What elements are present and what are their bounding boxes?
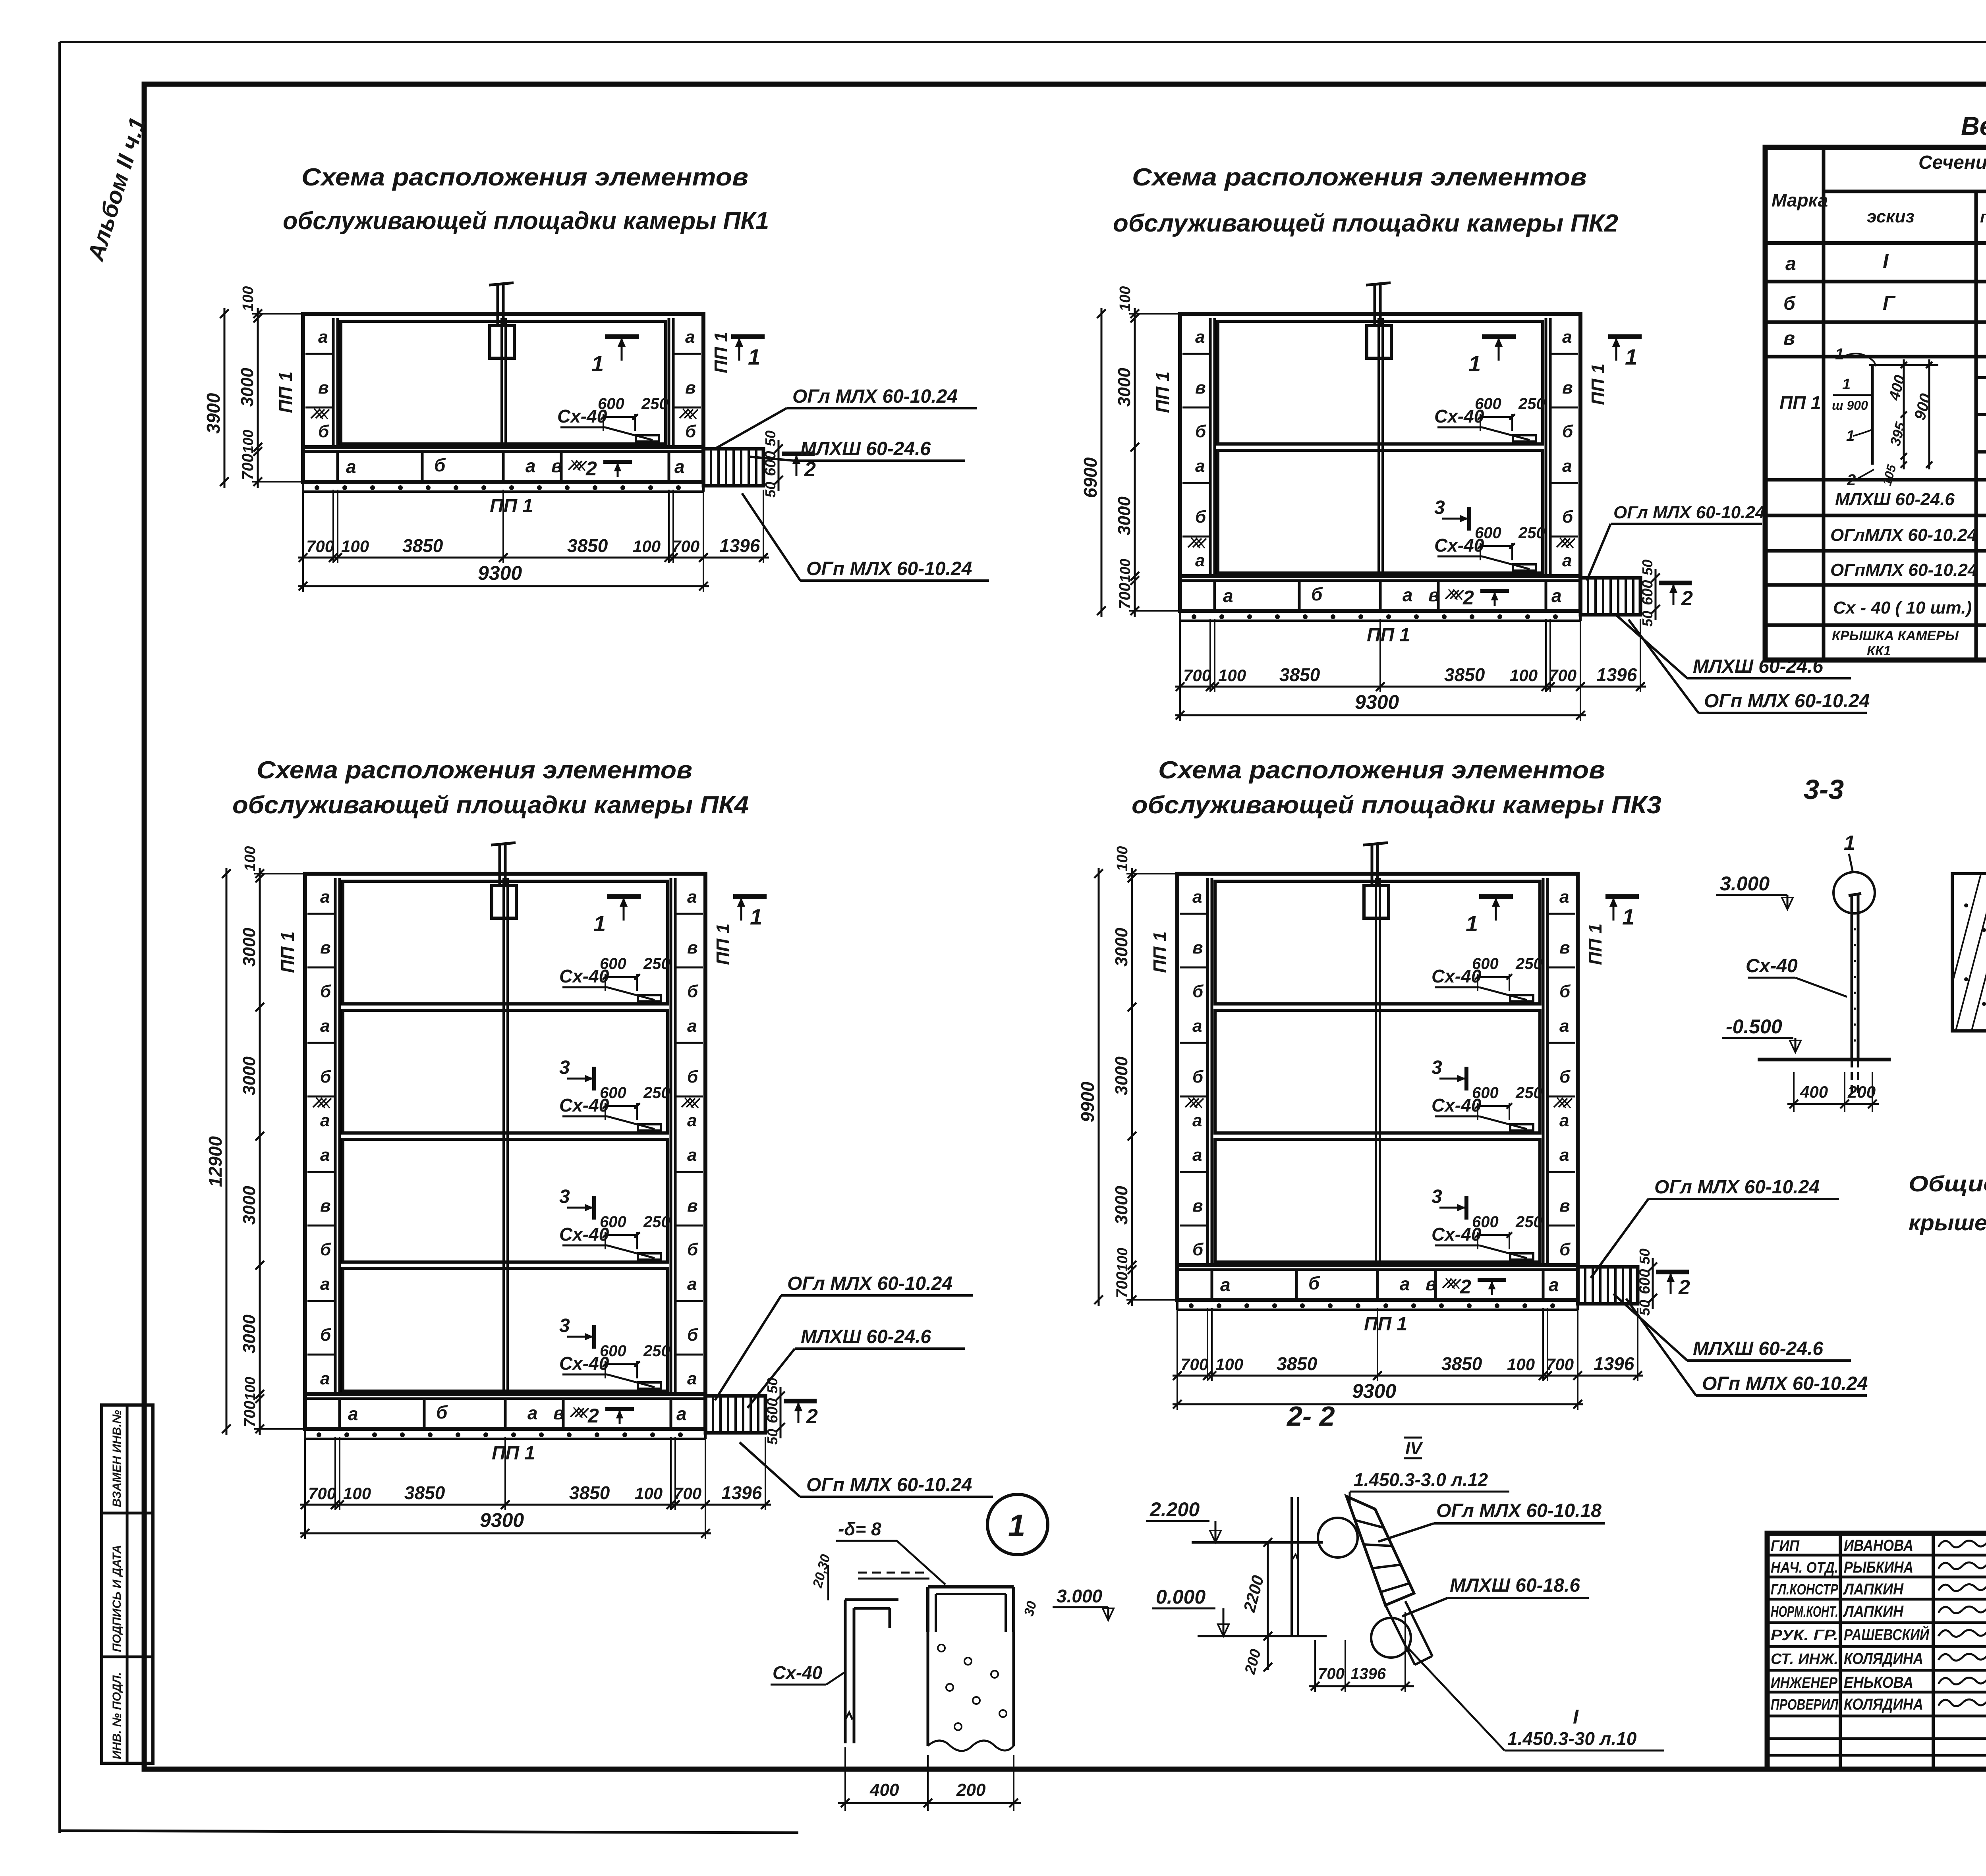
plan PK3 left dimension chain bbox=[1131, 868, 1133, 1306]
svg-text:9300: 9300 bbox=[480, 1509, 524, 1531]
svg-text:б: б bbox=[320, 1240, 332, 1259]
svg-text:ВЗАМЕН ИНВ.№: ВЗАМЕН ИНВ.№ bbox=[110, 1410, 124, 1507]
svg-text:100: 100 bbox=[1114, 846, 1131, 871]
svg-text:100: 100 bbox=[240, 286, 257, 311]
svg-text:ОГл МЛХ 60-10.24: ОГл МЛХ 60-10.24 bbox=[787, 1273, 952, 1294]
svg-text:50: 50 bbox=[1639, 611, 1656, 627]
svg-text:в: в bbox=[1783, 328, 1795, 349]
svg-text:250: 250 bbox=[1518, 395, 1545, 413]
plan PK1 section mark 2 outside ladder bbox=[782, 452, 815, 456]
svg-text:1: 1 bbox=[748, 344, 760, 369]
svg-text:а: а bbox=[1400, 1274, 1410, 1294]
plan PK4 section mark 1 inside bbox=[607, 894, 641, 899]
svg-text:КК1: КК1 bbox=[1867, 643, 1891, 658]
plan PK1 section mark 1 outside bbox=[731, 334, 765, 339]
svg-text:КРЫШКА КАМЕРЫ: КРЫШКА КАМЕРЫ bbox=[1832, 628, 1959, 643]
svg-text:а: а bbox=[687, 1111, 697, 1130]
plan PK3 ladder width dim 50-600-50 bbox=[1652, 1258, 1654, 1309]
svg-text:700: 700 bbox=[308, 1484, 336, 1503]
svg-text:а: а bbox=[674, 456, 685, 477]
svg-text:3000: 3000 bbox=[1112, 928, 1131, 967]
svg-text:3850: 3850 bbox=[1277, 1353, 1318, 1374]
svg-text:б: б bbox=[320, 982, 332, 1001]
svg-text:2: 2 bbox=[1460, 1276, 1471, 1298]
svg-text:НАЧ. ОТД.: НАЧ. ОТД. bbox=[1771, 1559, 1838, 1576]
svg-text:а: а bbox=[1559, 1111, 1569, 1130]
plan PK4 section mark 1 outside bbox=[733, 894, 767, 899]
plan PK2 storey room panels bbox=[1218, 321, 1543, 444]
svg-text:б: б bbox=[1562, 422, 1574, 441]
svg-text:3000: 3000 bbox=[240, 1314, 259, 1353]
svg-text:а: а bbox=[527, 1403, 538, 1423]
plan PK2 bottom dimension chain bbox=[1179, 619, 1181, 692]
svg-text:1: 1 bbox=[1466, 911, 1478, 936]
svg-text:3850: 3850 bbox=[404, 1482, 445, 1503]
svg-text:а: а bbox=[1403, 585, 1413, 605]
svg-text:МЛХШ 60-24.6: МЛХШ 60-24.6 bbox=[1835, 490, 1955, 509]
section 3-3 detail circle 1 bbox=[1833, 872, 1875, 913]
svg-text:ОГп МЛХ 60-10.24: ОГп МЛХ 60-10.24 bbox=[1702, 1373, 1868, 1394]
svg-text:2: 2 bbox=[1462, 587, 1474, 609]
svg-text:700: 700 bbox=[1546, 1355, 1574, 1374]
svg-text:а: а bbox=[320, 1145, 330, 1165]
svg-text:ПРОВЕРИЛ: ПРОВЕРИЛ bbox=[1771, 1697, 1839, 1713]
svg-text:700: 700 bbox=[672, 537, 699, 556]
svg-text:в: в bbox=[1428, 585, 1439, 605]
svg-text:12900: 12900 bbox=[205, 1136, 226, 1187]
svg-text:б: б bbox=[1311, 584, 1323, 604]
svg-text:обслуживающей площадки камер: обслуживающей площадки камеры ПК1 bbox=[283, 207, 769, 235]
svg-text:ИНВ. № ПОДЛ.: ИНВ. № ПОДЛ. bbox=[110, 1672, 124, 1759]
section 3-3 ground line bbox=[1758, 1058, 1891, 1062]
plan PK4 anchor dots bbox=[304, 1429, 306, 1439]
svg-text:600: 600 bbox=[1472, 955, 1499, 973]
svg-text:ПП 1: ПП 1 bbox=[1779, 392, 1821, 413]
svg-text:600: 600 bbox=[1472, 1084, 1499, 1102]
outer sheet border bbox=[60, 41, 1986, 43]
svg-text:а: а bbox=[1195, 456, 1205, 476]
plan PK4 ladder bbox=[705, 1396, 765, 1433]
svg-text:ОГп МЛХ 60-10.24: ОГп МЛХ 60-10.24 bbox=[1704, 691, 1870, 712]
svg-text:КОЛЯДИНА: КОЛЯДИНА bbox=[1844, 1696, 1923, 1713]
svg-text:СТ. ИНЖ.: СТ. ИНЖ. bbox=[1771, 1651, 1838, 1668]
svg-text:Схема расположения элементов: Схема расположения элементов bbox=[1132, 164, 1587, 191]
svg-text:3850: 3850 bbox=[1279, 664, 1320, 685]
svg-text:ГИП: ГИП bbox=[1771, 1538, 1800, 1554]
svg-text:1: 1 bbox=[1842, 376, 1851, 393]
svg-text:НОРМ.КОНТ.: НОРМ.КОНТ. bbox=[1771, 1604, 1838, 1620]
svg-text:ОГлМЛХ 60-10.24: ОГлМЛХ 60-10.24 bbox=[1830, 525, 1977, 545]
svg-text:а: а bbox=[685, 327, 695, 347]
svg-text:ПП 1: ПП 1 bbox=[1588, 363, 1608, 405]
plan PK3 band section mark 2 bbox=[1478, 1278, 1506, 1282]
svg-text:250: 250 bbox=[1518, 524, 1545, 542]
plan PK2 section mark 3 storey 2 bbox=[1467, 507, 1471, 531]
svg-text:600: 600 bbox=[1475, 395, 1501, 413]
svg-text:а: а bbox=[1195, 327, 1205, 347]
plan PK3 overall height dim bbox=[1098, 868, 1100, 1306]
svg-text:1: 1 bbox=[1625, 344, 1637, 369]
svg-text:а: а bbox=[1559, 1016, 1569, 1036]
svg-text:МЛХШ 60-18.6: МЛХШ 60-18.6 bbox=[1450, 1575, 1580, 1596]
svg-text:400: 400 bbox=[869, 1780, 899, 1800]
svg-text:ПП 1: ПП 1 bbox=[1364, 1314, 1407, 1335]
title block signature grid bbox=[1767, 1554, 1986, 1557]
svg-text:2: 2 bbox=[585, 457, 597, 480]
section 2-2 joint circles bbox=[1318, 1518, 1358, 1558]
svg-text:обслуживающей площадки камер: обслуживающей площадки камеры ПК3 bbox=[1132, 791, 1661, 819]
svg-text:600: 600 bbox=[600, 1084, 626, 1102]
svg-text:обслуживающей площадки камер: обслуживающей площадки камеры ПК2 bbox=[1113, 210, 1618, 237]
plan PK3 section mark 2 outside ladder bbox=[1656, 1270, 1689, 1274]
svg-text:100: 100 bbox=[1114, 1248, 1130, 1272]
svg-text:крышек камер см. на листе: крышек камер см. на листе 3. bbox=[1909, 1210, 1986, 1235]
plan PK4 section mark 3 storey 2 bbox=[592, 1067, 596, 1090]
svg-text:а: а bbox=[1192, 1111, 1202, 1130]
svg-text:1396: 1396 bbox=[1594, 1353, 1634, 1374]
svg-text:МЛХШ 60-24.6: МЛХШ 60-24.6 bbox=[800, 438, 931, 459]
svg-text:2: 2 bbox=[806, 1405, 818, 1428]
plan PK3 section mark 1 outside bbox=[1605, 894, 1639, 899]
svg-text:100: 100 bbox=[341, 537, 369, 556]
svg-text:ЛАПКИН: ЛАПКИН bbox=[1843, 1603, 1904, 1620]
svg-text:100: 100 bbox=[635, 1484, 663, 1503]
svg-text:250: 250 bbox=[1515, 1084, 1542, 1102]
svg-text:б: б bbox=[1559, 1067, 1571, 1087]
svg-text:3000: 3000 bbox=[1112, 1186, 1131, 1225]
plan PK4 bottom band bbox=[305, 1394, 705, 1429]
svg-text:3.000: 3.000 bbox=[1720, 872, 1770, 895]
section 2-2 dim 200 bbox=[1267, 1636, 1269, 1670]
section 3-3 post bbox=[1851, 896, 1853, 1060]
svg-text:600: 600 bbox=[600, 1213, 626, 1231]
svg-text:3000: 3000 bbox=[238, 368, 257, 407]
svg-text:ш 900: ш 900 bbox=[1832, 398, 1868, 413]
svg-text:Г: Г bbox=[1883, 292, 1896, 314]
svg-text:ОГп МЛХ 60-10.24: ОГп МЛХ 60-10.24 bbox=[806, 1475, 972, 1496]
svg-text:в: в bbox=[553, 1403, 564, 1423]
svg-text:I: I bbox=[1573, 1706, 1579, 1728]
plan PK2 section mark 1 inside bbox=[1482, 334, 1516, 339]
svg-text:ОГл МЛХ 60-10.18: ОГл МЛХ 60-10.18 bbox=[1436, 1500, 1602, 1521]
section 2-2 ladder tail bbox=[1385, 1605, 1415, 1665]
plan PK2 band section mark 2 bbox=[1480, 589, 1509, 593]
svg-text:Схема расположения элементов: Схема расположения элементов bbox=[301, 164, 748, 191]
plan PK1 band section mark 2 bbox=[603, 460, 632, 464]
svg-text:б: б bbox=[1192, 982, 1204, 1001]
svg-text:в: в bbox=[1192, 938, 1203, 957]
svg-text:100: 100 bbox=[1215, 1355, 1243, 1374]
plan PK3 bottom band bbox=[1177, 1265, 1578, 1300]
svg-text:3850: 3850 bbox=[569, 1482, 610, 1503]
svg-text:3: 3 bbox=[559, 1057, 570, 1078]
svg-text:в: в bbox=[1559, 1196, 1570, 1216]
plan PK3 outer walls bbox=[1177, 874, 1578, 1265]
plan PK3 storey room panels bbox=[1215, 881, 1540, 1004]
svg-text:1: 1 bbox=[1835, 345, 1844, 363]
svg-text:в: в bbox=[1426, 1274, 1437, 1294]
svg-text:а: а bbox=[348, 1403, 358, 1424]
plan PK4 bottom dimension chain bbox=[304, 1437, 306, 1510]
plan PK4 section mark 3 storey 4 bbox=[592, 1325, 596, 1349]
plan PK3 anchor dots bbox=[1176, 1300, 1178, 1310]
svg-text:в: в bbox=[551, 455, 562, 476]
svg-text:3000: 3000 bbox=[240, 1186, 259, 1225]
plan PK1 overall width dim bbox=[298, 585, 709, 587]
svg-text:Общие указания и схему рас: Общие указания и схему расположения bbox=[1909, 1171, 1986, 1196]
section 3-3 dims 400 200 bbox=[1793, 1072, 1795, 1112]
svg-text:в: в bbox=[1559, 938, 1570, 957]
svg-text:ОГл МЛХ 60-10.24: ОГл МЛХ 60-10.24 bbox=[792, 386, 958, 407]
svg-text:3: 3 bbox=[1432, 1186, 1442, 1207]
plan PK1 bottom band bbox=[303, 447, 703, 482]
svg-text:100: 100 bbox=[240, 430, 256, 454]
svg-text:а: а bbox=[320, 887, 330, 907]
svg-text:а: а bbox=[1562, 327, 1572, 347]
svg-text:б: б bbox=[1559, 982, 1571, 1001]
svg-text:100: 100 bbox=[242, 846, 259, 871]
svg-text:в: в bbox=[1192, 1196, 1203, 1216]
svg-text:3850: 3850 bbox=[402, 535, 443, 556]
svg-text:3: 3 bbox=[1432, 1057, 1442, 1078]
svg-text:2- 2: 2- 2 bbox=[1286, 1401, 1335, 1432]
svg-text:0.000: 0.000 bbox=[1156, 1586, 1206, 1608]
svg-text:РУК. ГР.: РУК. ГР. bbox=[1771, 1627, 1838, 1644]
svg-text:200: 200 bbox=[956, 1780, 986, 1800]
plan PK4 ladder width dim 50-600-50 bbox=[780, 1387, 782, 1438]
svg-text:6900: 6900 bbox=[1080, 457, 1101, 498]
svg-text:9300: 9300 bbox=[1352, 1380, 1396, 1402]
svg-text:б: б bbox=[1559, 1240, 1571, 1259]
plan PK2 bottom band bbox=[1180, 576, 1580, 611]
svg-text:эскиз: эскиз bbox=[1867, 207, 1915, 226]
svg-text:2: 2 bbox=[1681, 587, 1693, 610]
svg-text:а: а bbox=[346, 456, 356, 477]
svg-text:1: 1 bbox=[1468, 351, 1481, 376]
svg-text:250: 250 bbox=[1515, 1213, 1542, 1231]
svg-text:50: 50 bbox=[762, 482, 779, 498]
title block frame bbox=[1767, 1533, 1986, 1769]
plan PK1 anchor dots bbox=[302, 482, 304, 492]
svg-text:3850: 3850 bbox=[1444, 664, 1485, 685]
svg-text:3000: 3000 bbox=[240, 1056, 259, 1095]
svg-text:700: 700 bbox=[674, 1484, 701, 1503]
detail 1 dashed tie bbox=[858, 1572, 929, 1574]
svg-text:б: б bbox=[685, 422, 697, 441]
plan PK1 overall height dim bbox=[224, 308, 226, 488]
svg-text:600: 600 bbox=[600, 1342, 626, 1360]
svg-text:1396: 1396 bbox=[1350, 1665, 1386, 1683]
svg-text:ПП 1: ПП 1 bbox=[1367, 625, 1410, 646]
svg-text:а: а bbox=[1192, 1016, 1202, 1036]
svg-text:РЫБКИНА: РЫБКИНА bbox=[1844, 1559, 1913, 1576]
svg-text:400: 400 bbox=[1800, 1083, 1828, 1101]
svg-text:а: а bbox=[676, 1403, 687, 1424]
svg-text:1.450.3-3.0 л.12: 1.450.3-3.0 л.12 bbox=[1354, 1469, 1488, 1490]
svg-text:ПП 1: ПП 1 bbox=[1585, 923, 1605, 965]
svg-text:200: 200 bbox=[1847, 1083, 1876, 1101]
svg-text:ПП 1: ПП 1 bbox=[1149, 931, 1170, 973]
svg-text:1: 1 bbox=[750, 904, 762, 929]
section 2-2 dims 700 1396 bbox=[1314, 1640, 1316, 1692]
svg-text:а: а bbox=[687, 1145, 697, 1165]
svg-text:МЛХШ 60-24.6: МЛХШ 60-24.6 bbox=[1693, 1338, 1823, 1359]
svg-text:3: 3 bbox=[559, 1186, 570, 1207]
svg-text:700: 700 bbox=[1180, 1355, 1208, 1374]
svg-text:100: 100 bbox=[633, 537, 661, 556]
svg-text:9900: 9900 bbox=[1077, 1081, 1098, 1122]
svg-text:а: а bbox=[1785, 253, 1796, 274]
svg-text:1396: 1396 bbox=[719, 535, 760, 556]
svg-text:б: б bbox=[687, 982, 699, 1001]
svg-text:700: 700 bbox=[1549, 666, 1576, 685]
svg-text:в: в bbox=[318, 378, 329, 398]
svg-text:ОГл МЛХ 60-10.24: ОГл МЛХ 60-10.24 bbox=[1654, 1177, 1820, 1198]
plan PK2 overall width dim bbox=[1175, 714, 1586, 716]
svg-text:700: 700 bbox=[1318, 1665, 1345, 1683]
plan PK4 outer walls bbox=[305, 874, 705, 1394]
svg-text:Схема расположения элементов: Схема расположения элементов bbox=[257, 757, 692, 784]
svg-text:в: в bbox=[1195, 378, 1206, 398]
svg-text:600: 600 bbox=[598, 395, 624, 413]
svg-text:РАШЕВСКИЙ: РАШЕВСКИЙ bbox=[1844, 1625, 1930, 1644]
svg-text:ОГпМЛХ 60-10.24: ОГпМЛХ 60-10.24 bbox=[1830, 560, 1977, 580]
svg-text:2: 2 bbox=[1678, 1276, 1690, 1299]
svg-text:600: 600 bbox=[600, 955, 626, 973]
svg-text:700: 700 bbox=[306, 537, 334, 556]
svg-text:1: 1 bbox=[1008, 1508, 1025, 1543]
svg-text:б: б bbox=[1192, 1240, 1204, 1259]
svg-text:700: 700 bbox=[239, 454, 257, 480]
svg-text:МЛХШ 60-24.6: МЛХШ 60-24.6 bbox=[801, 1326, 931, 1347]
svg-text:а: а bbox=[320, 1274, 330, 1294]
plan PK1 bottom dimension chain bbox=[302, 490, 304, 563]
plan PK2 ladder bbox=[1580, 578, 1640, 615]
svg-text:3-3: 3-3 bbox=[1804, 774, 1844, 805]
svg-text:100: 100 bbox=[1218, 666, 1246, 685]
svg-text:ПОДПИСЬ И ДАТА: ПОДПИСЬ И ДАТА bbox=[110, 1545, 124, 1652]
svg-text:б: б bbox=[687, 1325, 699, 1345]
svg-text:а: а bbox=[1559, 887, 1569, 907]
svg-text:Сх-40: Сх-40 bbox=[773, 1662, 823, 1683]
detail 1 channel bbox=[928, 1585, 1014, 1588]
svg-text:б: б bbox=[318, 422, 330, 441]
svg-text:ИВАНОВА: ИВАНОВА bbox=[1844, 1537, 1913, 1554]
svg-text:250: 250 bbox=[643, 1213, 670, 1231]
svg-text:700: 700 bbox=[1116, 583, 1134, 609]
svg-text:в: в bbox=[685, 378, 696, 398]
plan PK3 overall width dim bbox=[1173, 1403, 1583, 1405]
svg-text:а: а bbox=[318, 327, 328, 347]
section 2-2 dim 2200 bbox=[1267, 1542, 1269, 1636]
svg-text:а: а bbox=[1551, 585, 1562, 606]
plan PK1 outer walls bbox=[303, 314, 703, 447]
svg-text:250: 250 bbox=[1515, 955, 1542, 973]
plan PK4 section mark 3 storey 3 bbox=[592, 1196, 596, 1220]
detail 1 circle label bbox=[987, 1494, 1048, 1555]
svg-text:3: 3 bbox=[559, 1315, 570, 1336]
svg-text:ОГп МЛХ 60-10.24: ОГп МЛХ 60-10.24 bbox=[806, 558, 972, 579]
svg-text:а: а bbox=[525, 455, 536, 476]
svg-text:б: б bbox=[1195, 507, 1207, 527]
svg-text:9300: 9300 bbox=[1355, 691, 1399, 713]
svg-text:600: 600 bbox=[1475, 524, 1501, 542]
svg-text:б: б bbox=[687, 1067, 699, 1087]
svg-text:700: 700 bbox=[1183, 666, 1211, 685]
svg-text:Схема расположения элементов: Схема расположения элементов bbox=[1158, 757, 1605, 784]
svg-text:ПП 1: ПП 1 bbox=[711, 332, 731, 373]
svg-text:700: 700 bbox=[1113, 1272, 1131, 1298]
left stamp table bbox=[102, 1405, 153, 1763]
svg-text:100: 100 bbox=[242, 1377, 258, 1401]
svg-text:б: б bbox=[320, 1067, 332, 1087]
svg-text:ПП 1: ПП 1 bbox=[492, 1443, 535, 1464]
svg-text:а: а bbox=[1223, 585, 1233, 606]
svg-text:1: 1 bbox=[1622, 904, 1634, 929]
svg-text:а: а bbox=[1562, 551, 1572, 570]
svg-text:а: а bbox=[1195, 551, 1205, 570]
svg-text:ПП 1: ПП 1 bbox=[277, 931, 298, 973]
plan PK2 section mark 1 outside bbox=[1608, 334, 1642, 339]
svg-text:а: а bbox=[687, 1369, 697, 1388]
svg-text:а: а bbox=[1192, 887, 1202, 907]
section 1-1 wall with hatch bbox=[1952, 874, 1986, 1031]
svg-text:ПП 1: ПП 1 bbox=[275, 371, 296, 413]
svg-text:2.200: 2.200 bbox=[1149, 1498, 1200, 1521]
svg-text:поз.: поз. bbox=[1980, 207, 1986, 226]
svg-text:I: I bbox=[1883, 250, 1889, 273]
svg-text:600: 600 bbox=[1636, 1269, 1653, 1294]
plan PK2 outer walls bbox=[1180, 314, 1580, 576]
svg-text:-δ= 8: -δ= 8 bbox=[838, 1519, 881, 1539]
plan PK2 vent pipe bbox=[1374, 285, 1376, 326]
plan PK4 overall height dim bbox=[226, 868, 228, 1435]
plan PK4 overall width dim bbox=[300, 1532, 711, 1534]
svg-text:а: а bbox=[687, 887, 697, 907]
svg-text:-0.500: -0.500 bbox=[1726, 1015, 1782, 1038]
svg-text:а: а bbox=[1192, 1145, 1202, 1165]
svg-text:100: 100 bbox=[343, 1484, 371, 1503]
svg-text:б: б bbox=[320, 1325, 332, 1345]
svg-text:б: б bbox=[687, 1240, 699, 1259]
section 2-2 wall post bbox=[1291, 1497, 1293, 1636]
svg-text:1: 1 bbox=[591, 351, 604, 376]
svg-text:1396: 1396 bbox=[1596, 664, 1637, 685]
plan PK1 ladder bbox=[703, 449, 763, 486]
svg-text:3.000: 3.000 bbox=[1057, 1586, 1103, 1606]
plan PK4 centre divider bbox=[502, 878, 505, 1394]
svg-text:3850: 3850 bbox=[567, 535, 608, 556]
svg-text:в: в bbox=[1562, 378, 1573, 398]
svg-text:250: 250 bbox=[643, 955, 670, 973]
vedomost table grid bbox=[1765, 147, 1986, 660]
svg-text:2: 2 bbox=[587, 1405, 599, 1427]
plan PK1 section mark 1 inside bbox=[605, 334, 639, 339]
svg-text:ОГл МЛХ 60-10.24: ОГл МЛХ 60-10.24 bbox=[1613, 503, 1765, 522]
plan PK1 storey room panels bbox=[341, 321, 666, 444]
svg-text:3: 3 bbox=[1434, 497, 1445, 518]
svg-text:50: 50 bbox=[1639, 560, 1656, 575]
svg-text:обслуживающей площадки камер: обслуживающей площадки камеры ПК4 bbox=[232, 791, 749, 819]
plan PK4 vent pipe bbox=[498, 845, 501, 886]
svg-text:1.450.3-30 л.10: 1.450.3-30 л.10 bbox=[1507, 1728, 1637, 1749]
svg-text:б: б bbox=[1562, 507, 1574, 527]
plan PK1 ladder width dim 50-600-50 bbox=[778, 440, 780, 491]
svg-text:а: а bbox=[1562, 456, 1572, 476]
svg-text:250: 250 bbox=[641, 395, 668, 413]
svg-text:700: 700 bbox=[241, 1401, 259, 1427]
plan PK2 centre divider bbox=[1377, 318, 1380, 576]
